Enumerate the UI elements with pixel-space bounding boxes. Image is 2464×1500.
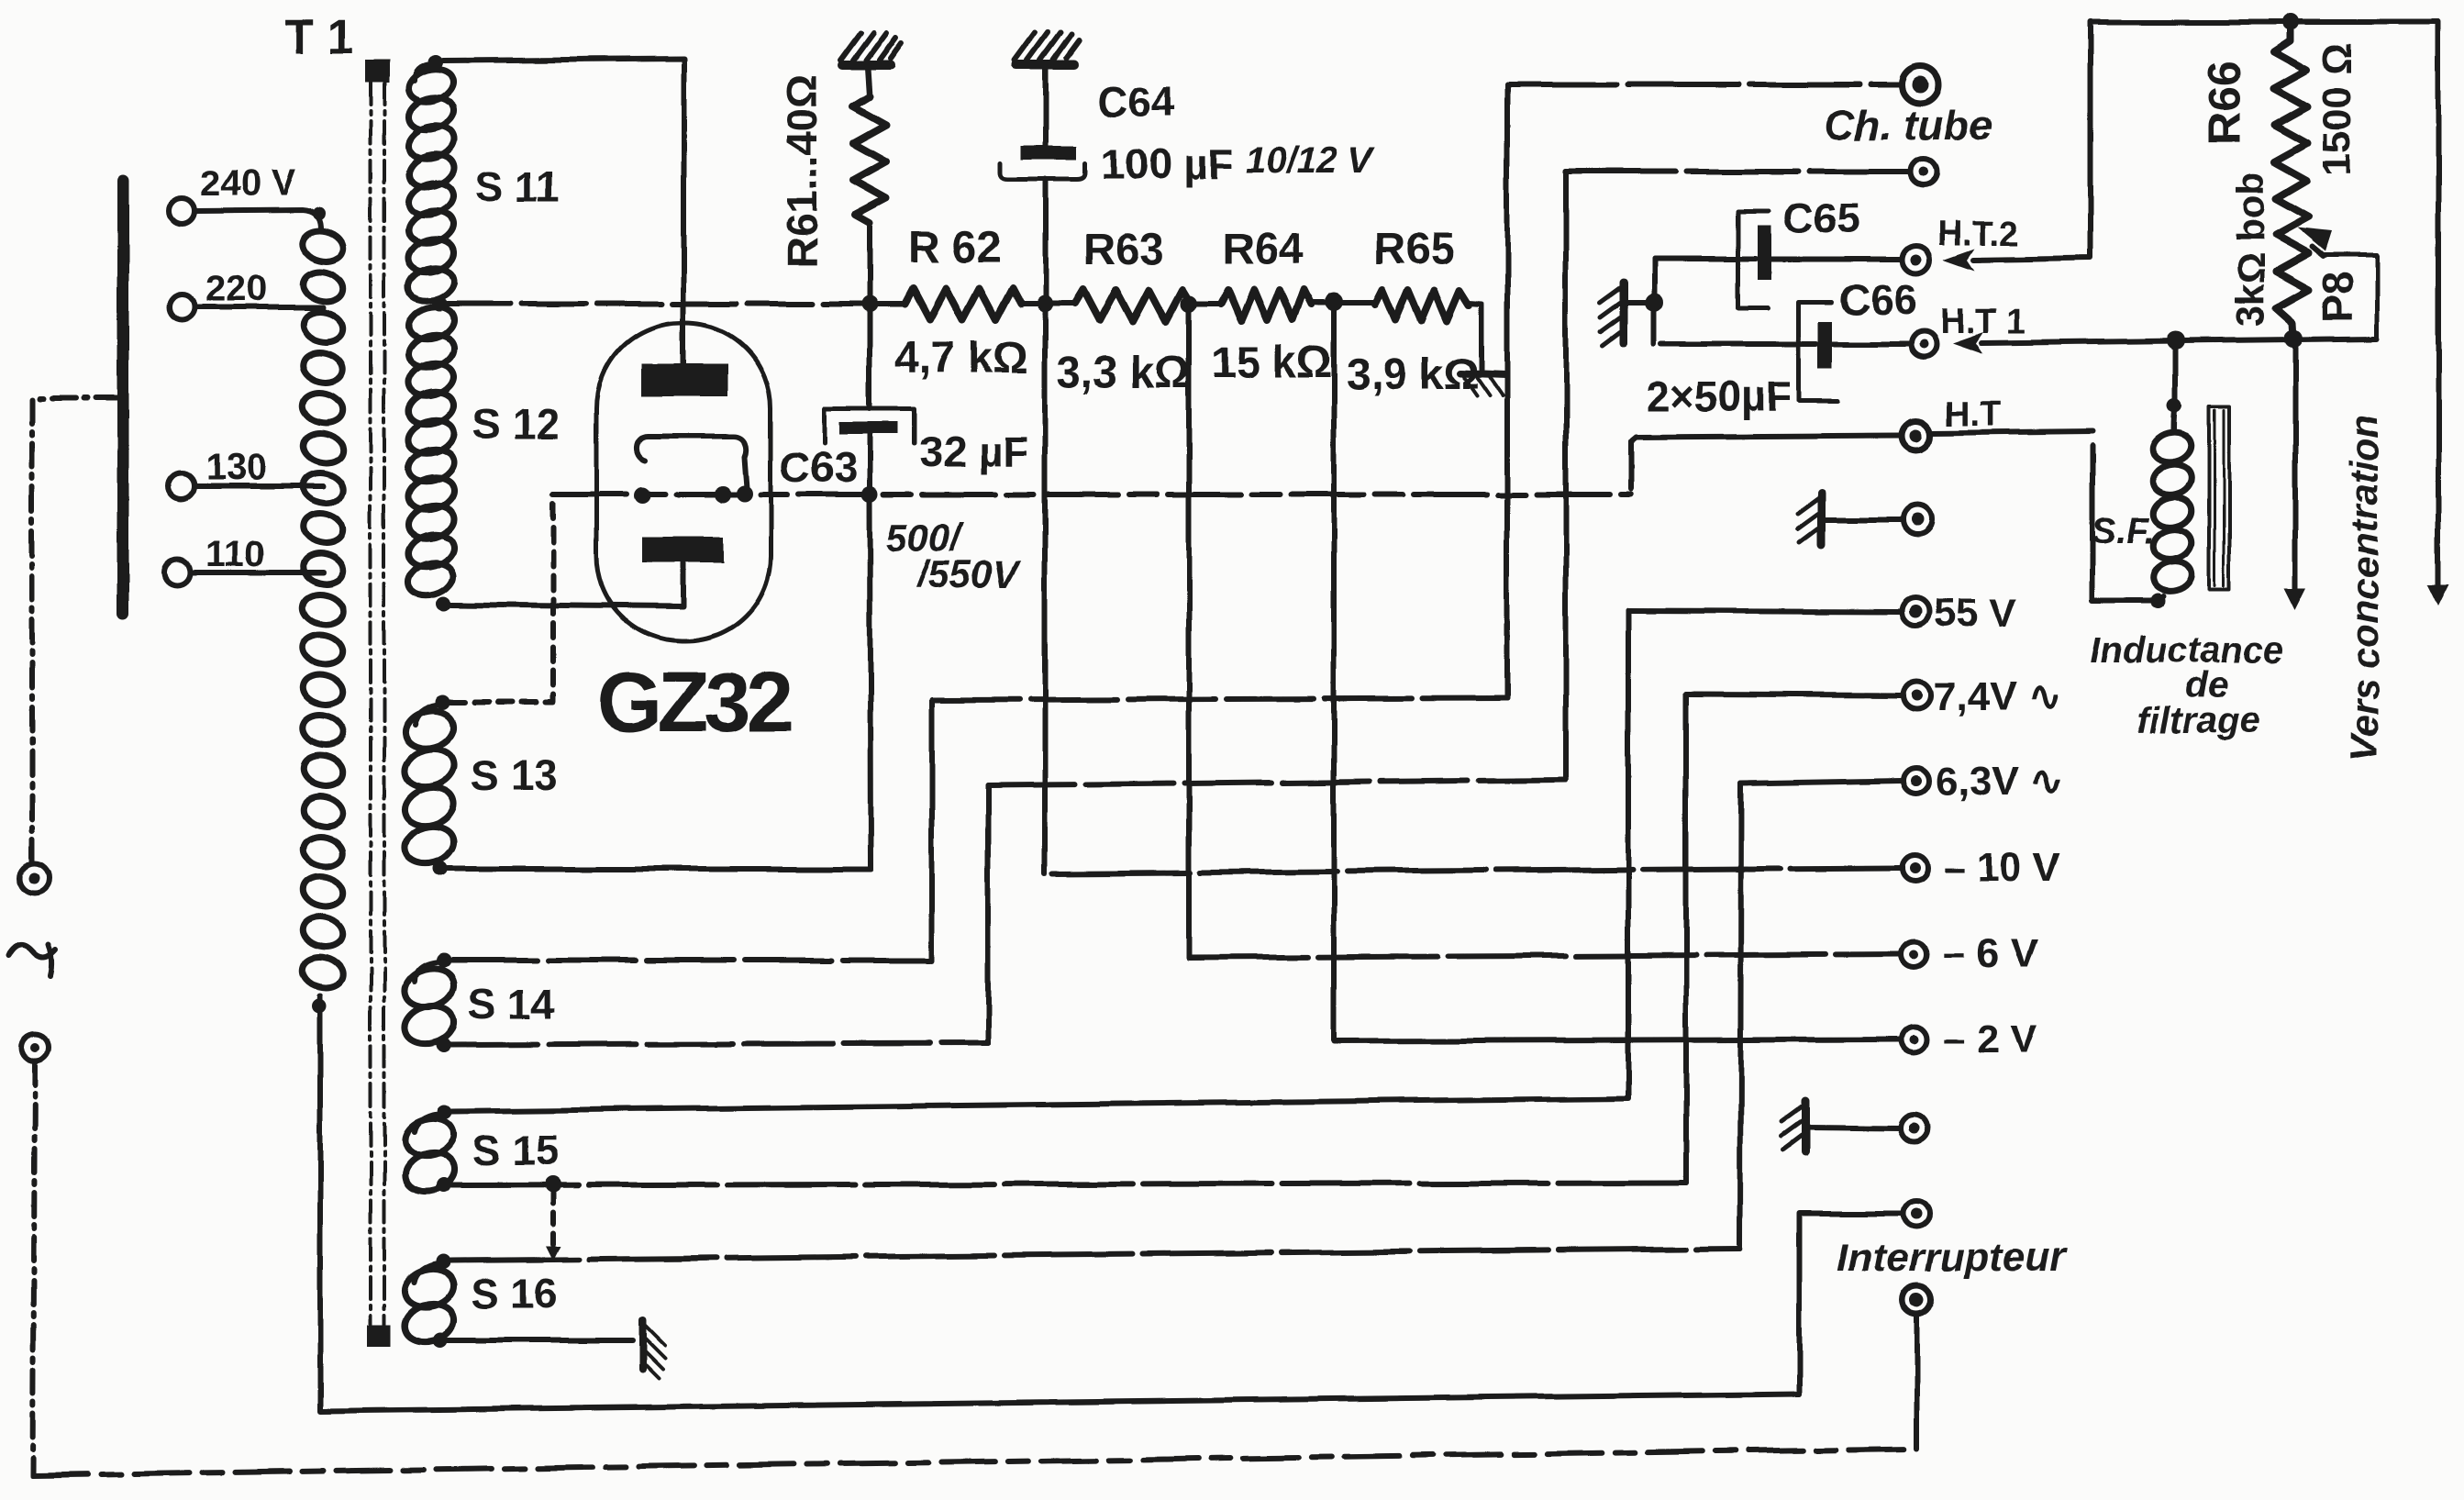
node C64 bus xyxy=(1037,295,1053,312)
svg-text:P8: P8 xyxy=(2314,272,2361,323)
wire cathode line xyxy=(553,492,1631,497)
resistor R61 xyxy=(853,96,886,223)
node S.F. top tap xyxy=(2167,331,2185,350)
terminal -2V xyxy=(1901,1027,1926,1052)
secondary S16 xyxy=(415,1263,440,1283)
terminal H.T xyxy=(1902,421,1931,450)
wire S14 top to Ch.tube line xyxy=(450,958,932,963)
svg-text:100 µF: 100 µF xyxy=(1101,140,1233,188)
svg-text:filtrage: filtrage xyxy=(2137,700,2259,740)
svg-text:240 V: 240 V xyxy=(200,163,296,204)
transformer core xyxy=(371,83,384,1327)
node S11/S12 tap xyxy=(432,296,447,311)
wire ground to C65/C66 junction xyxy=(1624,299,1654,305)
svg-text:S 12: S 12 xyxy=(472,400,560,448)
node S16 bottom xyxy=(433,1333,448,1348)
node S12 bottom xyxy=(437,596,451,611)
terminal H.T.1 xyxy=(1911,331,1937,357)
tube GZ32 anode 2 xyxy=(642,537,723,562)
transformer T1 primary winding xyxy=(300,227,346,992)
svg-text:C63: C63 xyxy=(780,443,857,491)
wire C66 right lead to H.T.1 xyxy=(1832,341,1911,347)
inductor S.F. xyxy=(2150,428,2194,594)
svg-text:C66: C66 xyxy=(1839,276,1916,324)
wire C63 to cathode line xyxy=(867,434,872,492)
terminal 55V xyxy=(1902,598,1929,626)
terminal interrupteur-2 xyxy=(1903,1285,1932,1315)
svg-text:R63: R63 xyxy=(1083,226,1164,274)
ground G4 (C65/C66) xyxy=(1620,283,1628,343)
node C65/C66 junction xyxy=(1645,293,1663,311)
wire R62 lead xyxy=(877,301,905,306)
terminal -10V xyxy=(1902,855,1927,881)
terminal Ch.tube-2 xyxy=(1911,159,1937,184)
wire S15 top to 55V xyxy=(452,611,1628,1111)
potentiometer P8 wiper and frame xyxy=(2313,247,2324,256)
svg-text:Ch. tube: Ch. tube xyxy=(1824,101,1992,149)
wire dashed link S15 to S16 xyxy=(550,1193,556,1248)
svg-text:130: 130 xyxy=(205,448,267,488)
secondary S14 xyxy=(415,962,438,982)
svg-text:3,3 kΩ: 3,3 kΩ xyxy=(1057,349,1190,397)
wire ground G5 to terminal xyxy=(1822,517,1903,522)
svg-text:T 1: T 1 xyxy=(284,11,353,64)
node R63/R64 xyxy=(1181,295,1197,312)
terminal 7.4V xyxy=(1903,682,1931,709)
wire S11 top to anode xyxy=(443,59,683,363)
svg-text:GZ32: GZ32 xyxy=(596,656,791,750)
wire bottom mains to interrupteur-2 xyxy=(33,1449,1914,1475)
svg-text:6,3V ∿: 6,3V ∿ xyxy=(1936,759,2064,804)
wire H.T.2 feed with arrow xyxy=(1974,22,2438,587)
terminal earth-low xyxy=(1901,1115,1928,1142)
node R64/R65 xyxy=(1325,293,1343,311)
svg-text:H.T.2: H.T.2 xyxy=(1937,215,2019,253)
wire 240V tap xyxy=(195,210,321,228)
ground G2 (top of C64) xyxy=(1016,61,1073,70)
wire 7.4V lead xyxy=(1686,694,1903,695)
svg-text:R 62: R 62 xyxy=(908,224,1001,272)
terminal mains-B xyxy=(21,1033,49,1061)
wire ground to R61 xyxy=(868,68,870,96)
wire S14 bottom to Ch.tube-2 line xyxy=(450,1043,988,1045)
wire ground to C64 xyxy=(1043,68,1049,147)
terminal mains-A xyxy=(20,863,50,893)
terminal 240V xyxy=(169,198,194,224)
wire R64-R65 xyxy=(1311,300,1375,306)
svg-text:55 V: 55 V xyxy=(1934,591,2017,636)
svg-text:– 6 V: – 6 V xyxy=(1943,931,2037,976)
wire R63-R64 xyxy=(1191,301,1221,306)
svg-text:3kΩ bob: 3kΩ bob xyxy=(2229,172,2272,327)
svg-text:2×50µF: 2×50µF xyxy=(1647,372,1792,420)
wire Ch.tube-2 vertical xyxy=(1563,172,1569,780)
svg-text:S 11: S 11 xyxy=(475,162,560,210)
wire S16 bottom to ground xyxy=(448,1338,633,1343)
ground G5 xyxy=(1818,494,1826,545)
svg-text:R64: R64 xyxy=(1223,226,1304,274)
wire ground G6 to terminal xyxy=(1805,1128,1901,1128)
capacitor C65 xyxy=(1738,211,1769,307)
svg-text:S 13: S 13 xyxy=(471,751,558,799)
wire R65 to ground xyxy=(1469,303,1482,371)
wire S.F. top riser xyxy=(2174,350,2176,429)
svg-text:H.T: H.T xyxy=(1945,395,2001,434)
terminal H.T.2 xyxy=(1903,246,1930,273)
svg-text:Interrupteur: Interrupteur xyxy=(1837,1235,2068,1280)
terminal interrupteur-1 xyxy=(1903,1201,1929,1227)
wire H.T.1 feed with arrow xyxy=(1981,339,2377,343)
tube GZ32 envelope xyxy=(596,323,771,641)
wire 110 tap xyxy=(191,570,323,575)
tube GZ32 anode 1 xyxy=(642,363,727,395)
svg-text:C64: C64 xyxy=(1097,78,1175,126)
wire C64 down to -10V line xyxy=(1045,179,1046,873)
capacitor C64 xyxy=(1020,146,1077,160)
svg-text:R66: R66 xyxy=(2199,61,2250,145)
terminal -6V xyxy=(1902,941,1927,967)
wire 130 tap xyxy=(195,483,323,489)
wire S13 bottom xyxy=(448,494,871,869)
capacitor C63 xyxy=(825,409,915,443)
terminal 6.3V xyxy=(1903,768,1929,794)
svg-text:220: 220 xyxy=(205,269,267,309)
wire -6V line xyxy=(1186,311,1192,958)
svg-text:15 kΩ: 15 kΩ xyxy=(1211,339,1332,387)
wire H.T left lead with jog to cathode line xyxy=(1631,436,1901,489)
node S14 bottom xyxy=(436,1038,450,1052)
resistor R66 and potentiometer P8 chain xyxy=(2282,14,2299,30)
secondary S13 xyxy=(415,705,438,725)
svg-text:4,7 kΩ: 4,7 kΩ xyxy=(894,334,1027,383)
svg-text:– 2 V: – 2 V xyxy=(1943,1017,2037,1061)
S.F. core bar xyxy=(2209,406,2229,589)
resistor R62 xyxy=(905,288,1021,319)
node R61/R62 xyxy=(861,295,878,312)
wire 55V lead xyxy=(1628,611,1901,612)
svg-text:R61...40Ω: R61...40Ω xyxy=(778,74,826,268)
terminal 130 xyxy=(169,473,194,499)
secondary S11 xyxy=(415,64,431,81)
svg-text:S 16: S 16 xyxy=(471,1270,558,1317)
capacitor C66 xyxy=(1799,302,1837,401)
svg-text:7,4V ∿: 7,4V ∿ xyxy=(1934,674,2062,719)
wire junction down to C63 xyxy=(867,311,872,409)
wire interrupteur-2 xyxy=(1915,1315,1920,1449)
wire S15 bottom to 7.4V xyxy=(450,1183,1686,1185)
wire junction riser xyxy=(1651,259,1657,344)
wire R62-R63 xyxy=(1021,301,1075,306)
svg-text:H.T 1: H.T 1 xyxy=(1940,303,2026,341)
tube GZ32 filament xyxy=(637,437,748,494)
svg-text:S 15: S 15 xyxy=(472,1127,560,1174)
resistor R65 xyxy=(1375,290,1469,320)
node S15 bottom xyxy=(436,1178,450,1193)
wire primary bottom to switch line xyxy=(320,995,1799,1411)
wire interrupteur-1 xyxy=(1799,1214,1903,1394)
wire S13 top to cathode (dashed riser) xyxy=(450,496,553,702)
terminal earth-mid xyxy=(1903,505,1933,534)
secondary S12 xyxy=(405,302,457,600)
svg-text:S.F.: S.F. xyxy=(2092,511,2155,551)
ground G6 xyxy=(1802,1101,1810,1152)
wire C66 left lead xyxy=(1661,341,1816,347)
electrostatic shield bar xyxy=(117,180,129,614)
svg-text:10/12 V: 10/12 V xyxy=(1246,140,1375,181)
svg-text:3,9 kΩ: 3,9 kΩ xyxy=(1346,350,1479,399)
wire -2V line xyxy=(1334,309,1900,1041)
wire H.T terminal right lead xyxy=(1932,431,2092,433)
terminal 220 xyxy=(169,294,194,320)
AC symbol xyxy=(7,945,55,976)
wire Ch.tube-2 terminal lead xyxy=(1566,169,1911,174)
wire -10V line xyxy=(1052,868,1901,873)
wire mains-A upper dash-dot xyxy=(32,398,120,863)
secondary S15 xyxy=(415,1114,440,1132)
wire S12 bottom to lower anode xyxy=(451,562,684,606)
wire vers concentration (P8) xyxy=(2292,348,2298,592)
ground G1 (top of R61) xyxy=(842,61,890,70)
wire mains-B lower dash-dot xyxy=(33,1061,35,1475)
svg-text:Vers concentration: Vers concentration xyxy=(2343,414,2386,761)
wire 6.3V lead xyxy=(1741,781,1903,783)
wire centre-tap bus to R61 junction xyxy=(447,301,870,306)
ground G3 xyxy=(1460,373,1506,375)
wire S16 top to 6.3V xyxy=(450,1249,1740,1261)
wire C65 right lead to H.T.2 xyxy=(1771,257,1901,262)
svg-text:– 10 V: – 10 V xyxy=(1943,845,2060,890)
wire R61 to bus xyxy=(867,223,872,304)
svg-text:1500 Ω: 1500 Ω xyxy=(2314,43,2359,176)
wire C65 left lead xyxy=(1654,256,1756,261)
terminal 110 xyxy=(164,560,190,585)
wire S.F. bottom to H.T xyxy=(2150,594,2165,608)
svg-text:S 14: S 14 xyxy=(468,980,555,1028)
node P8 bottom tap xyxy=(2284,329,2303,348)
svg-text:/550V: /550V xyxy=(916,552,1021,595)
node S15 bottom link xyxy=(545,1176,561,1193)
resistor R63 xyxy=(1075,290,1191,321)
wire Ch.tube line vertical xyxy=(1504,84,1510,698)
node cathode joints xyxy=(634,487,650,504)
ground S16 xyxy=(639,1320,647,1369)
svg-text:R65: R65 xyxy=(1373,225,1454,273)
svg-text:110: 110 xyxy=(205,534,265,574)
wire Ch.tube terminal lead xyxy=(1507,82,1900,87)
svg-text:32 µF: 32 µF xyxy=(919,428,1028,475)
terminal Ch.tube xyxy=(1902,66,1938,103)
svg-text:C65: C65 xyxy=(1783,194,1860,242)
wire 220 tap xyxy=(195,305,323,310)
resistor R64 xyxy=(1221,290,1311,320)
node S13 bottom xyxy=(433,861,448,876)
